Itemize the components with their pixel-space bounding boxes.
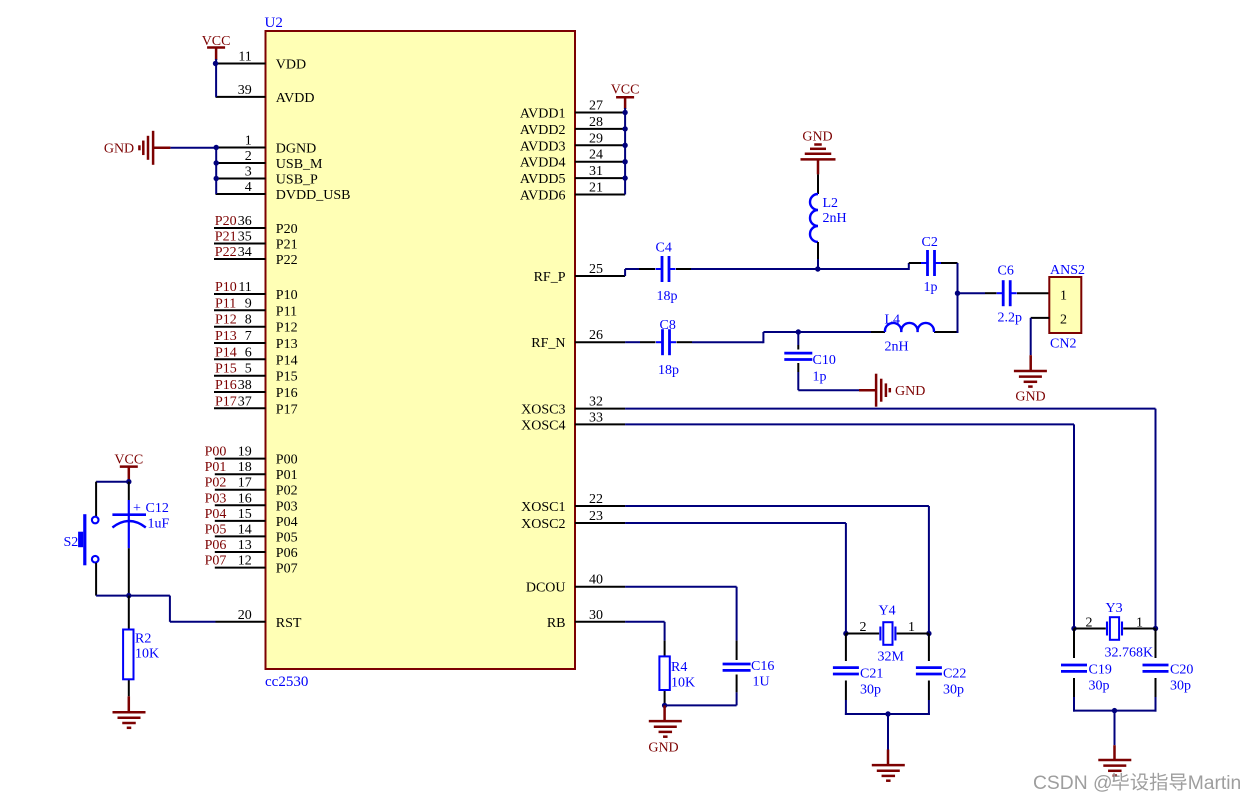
svg-text:CN2: CN2 [1050,337,1076,352]
power GND (below R4) [648,705,681,755]
svg-text:1: 1 [1136,616,1143,631]
capacitor C19 30p [1061,663,1112,694]
junction Y3 pin1/C20 [1153,626,1158,631]
capacitor C2 1p [921,235,941,295]
pin 37 P17 / net label P17 [214,394,298,417]
inductor L2 2nH [810,174,847,259]
svg-text:10K: 10K [671,676,695,691]
pin 14 P05 / net label P05 [205,522,298,545]
pin 27 AVDD1 [520,99,625,122]
junction L2/RF_P [815,266,820,271]
pin 33 XOSC4 [521,410,625,433]
svg-text:R4: R4 [671,660,687,675]
svg-text:P07: P07 [205,554,227,569]
wire VCC to VDD/AVDD [215,59,217,97]
pin 1 DGND [216,134,317,157]
wire RF_P net [625,263,957,294]
svg-text:C22: C22 [943,667,966,682]
svg-text:4: 4 [245,180,252,195]
svg-text:30p: 30p [1170,679,1191,694]
svg-text:L4: L4 [885,313,901,328]
svg-text:GND: GND [648,741,678,756]
junction DGND [214,145,219,150]
pin 31 AVDD5 [520,164,625,187]
wire S2 bottom to node [96,563,129,596]
svg-text:C6: C6 [998,264,1014,279]
pin 11 P10 / net label P10 [214,280,298,303]
junction RF_N/C10 [796,329,801,334]
junction AVDD4 [622,159,627,164]
svg-text:1U: 1U [753,675,770,690]
wire C22 branch [928,634,930,716]
capacitor C4 18p [656,241,678,305]
wire node to C6 to ANS2 pin1 [958,292,1050,294]
pin 7 P13 / net label P13 [214,329,298,352]
pin 15 P04 / net label P04 [205,507,298,530]
svg-text:P14: P14 [276,353,298,368]
junction USB_M [214,160,219,165]
svg-text:P04: P04 [205,507,227,522]
pin 29 AVDD3 [520,131,625,154]
svg-text:P16: P16 [276,386,298,401]
pin 22 XOSC1 [521,492,625,515]
capacitor C10 1p [784,353,836,385]
svg-text:13: 13 [238,538,252,553]
svg-text:AVDD1: AVDD1 [520,107,566,122]
svg-text:XOSC4: XOSC4 [521,418,565,433]
svg-text:P15: P15 [215,362,237,377]
svg-text:1p: 1p [813,370,827,385]
svg-text:AVDD4: AVDD4 [520,156,566,171]
pin 17 P02 / net label P02 [205,476,298,499]
part value cc2530 [265,674,308,690]
svg-text:C19: C19 [1089,663,1112,678]
svg-text:P13: P13 [276,337,298,352]
svg-text:C8: C8 [660,318,676,333]
wire GND to DGND/USB_M/USB_P/DVDD_USB [170,147,216,194]
svg-text:AVDD3: AVDD3 [520,139,566,154]
svg-text:39: 39 [238,83,252,98]
svg-text:20: 20 [238,608,252,623]
svg-text:34: 34 [238,245,252,260]
junction C2/C6/L4 node [955,291,960,296]
pin 38 P16 / net label P16 [214,378,298,401]
svg-text:AVDD2: AVDD2 [520,123,566,138]
capacitor C16 1U [723,659,775,690]
connector ANS2 / CN2 [1049,263,1085,352]
svg-text:30p: 30p [943,683,964,698]
svg-text:GND: GND [1015,390,1045,405]
svg-text:Y3: Y3 [1106,601,1123,616]
pin 20 RST [216,608,302,631]
power GND (below R2) [113,696,146,728]
wire Y4 ground rail [845,714,930,750]
junction VCC/C12/S2 [126,479,131,484]
svg-text:P21: P21 [276,238,298,253]
svg-text:P06: P06 [205,538,227,553]
svg-text:2: 2 [1086,616,1093,631]
svg-text:P00: P00 [276,453,298,468]
svg-text:40: 40 [589,573,603,588]
resistor R4 10K [659,656,695,690]
junction Y4 pin1/C22 [926,631,931,636]
junction Y3 ground rail [1112,708,1117,713]
svg-text:8: 8 [245,313,252,328]
wire C20 branch [1155,629,1157,712]
svg-text:P13: P13 [215,329,237,344]
power GND (below ANS2) [1014,355,1047,404]
svg-text:VDD: VDD [276,58,306,73]
wire XOSC2 to Y4 pin2 [625,523,846,634]
svg-text:19: 19 [238,445,252,460]
svg-text:11: 11 [238,50,251,65]
svg-text:P03: P03 [205,491,227,506]
junction Y4 ground rail [885,711,890,716]
svg-text:18p: 18p [657,289,678,304]
wire XOSC3 to Y3 pin1 [625,409,1155,629]
svg-text:25: 25 [589,262,603,277]
wire node to R2 to GND [128,596,130,697]
power GND (left, sideways) [104,131,171,165]
capacitor C20 30p [1143,663,1194,694]
pin 11 VDD [216,50,307,73]
svg-text:C21: C21 [860,667,883,682]
pin 9 P11 / net label P11 [214,296,297,319]
pin 25 RF_P [534,262,626,285]
svg-text:30p: 30p [860,683,881,698]
svg-text:3: 3 [245,165,252,180]
svg-text:VCC: VCC [114,453,143,468]
svg-text:XOSC1: XOSC1 [521,500,565,515]
svg-text:U2: U2 [265,15,283,31]
svg-text:P20: P20 [276,222,298,237]
svg-text:32M: 32M [878,650,905,665]
junction AVDD1 [622,110,627,115]
wire L2 to RF_P net [817,259,819,270]
watermark CSDN @毕设指导Martin [1033,773,1241,794]
svg-text:P21: P21 [215,230,237,245]
power GND (below Y3) [1098,745,1131,775]
svg-text:P14: P14 [215,345,237,360]
wire VCC junction to S2 top [96,482,129,517]
pin 39 AVDD [216,83,315,106]
wire XOSC4 to Y3 pin2 [625,424,1074,628]
svg-text:P22: P22 [215,245,237,260]
svg-text:GND: GND [802,129,832,144]
junction AVDD5 [622,175,627,180]
pin 4 DVDD_USB [216,180,351,203]
svg-text:P11: P11 [276,304,297,319]
junction Y3 pin2/C19 [1071,626,1076,631]
pin 5 P15 / net label P15 [214,362,298,385]
capacitor C12 1uF polarized [112,501,169,532]
svg-text:2nH: 2nH [823,211,847,226]
svg-text:P11: P11 [215,296,236,311]
svg-text:2nH: 2nH [885,340,909,355]
wire C10 to GND [798,332,859,390]
inductor L4 2nH [885,313,934,355]
power VCC (right of AVDD pins) [611,83,640,110]
wire RF_N net [625,293,957,343]
svg-text:2: 2 [245,149,252,164]
svg-text:P06: P06 [276,546,298,561]
pin 26 RF_N [531,328,625,351]
svg-text:P07: P07 [276,562,298,577]
svg-text:11: 11 [238,280,251,295]
capacitor C6 2.2p [997,264,1022,326]
wire DCOU to C16 to R4 node [625,587,737,706]
svg-text:GND: GND [104,142,134,157]
designator U2 [265,15,283,31]
svg-text:P15: P15 [276,370,298,385]
svg-text:30p: 30p [1089,679,1110,694]
svg-text:18p: 18p [658,363,679,378]
capacitor C8 18p [656,318,679,378]
IC U2 cc2530 body [266,31,576,669]
svg-text:9: 9 [245,296,252,311]
svg-text:+: + [133,501,141,516]
svg-text:14: 14 [238,522,252,537]
svg-text:P12: P12 [215,313,237,328]
pin 19 P00 / net label P00 [205,445,298,468]
pin 35 P21 / net label P21 [214,230,298,253]
svg-text:USB_P: USB_P [276,173,318,188]
svg-text:P03: P03 [276,499,298,514]
wire node to RST [129,596,216,622]
junction R4/C16 [662,703,667,708]
svg-text:DGND: DGND [276,142,316,157]
svg-text:P22: P22 [276,253,298,268]
svg-text:C12: C12 [146,501,169,516]
svg-text:32.768K: 32.768K [1105,646,1154,661]
svg-text:5: 5 [245,362,252,377]
svg-text:1: 1 [245,134,252,149]
svg-text:cc2530: cc2530 [265,674,308,690]
pin 13 P06 / net label P06 [205,538,298,561]
svg-text:Y4: Y4 [879,604,896,619]
svg-text:30: 30 [589,608,603,623]
capacitor C21 30p [833,667,883,698]
svg-text:S2: S2 [64,535,79,550]
svg-text:2.2p: 2.2p [998,311,1023,326]
svg-text:27: 27 [589,99,603,114]
svg-text:P02: P02 [205,476,227,491]
svg-text:P17: P17 [276,402,298,417]
capacitor C22 30p [916,667,966,698]
power GND (below Y4) [872,750,905,781]
junction USB_P [214,176,219,181]
svg-text:AVDD5: AVDD5 [520,172,566,187]
svg-text:24: 24 [589,148,603,163]
svg-text:ANS2: ANS2 [1050,263,1085,278]
junction AVDD2 [622,126,627,131]
svg-text:P05: P05 [276,530,298,545]
svg-text:1p: 1p [924,280,938,295]
svg-text:22: 22 [589,492,603,507]
svg-text:31: 31 [589,164,603,179]
svg-text:AVDD6: AVDD6 [520,189,566,204]
svg-text:DCOU: DCOU [526,581,566,596]
svg-text:DVDD_USB: DVDD_USB [276,188,351,203]
pin 6 P14 / net label P14 [214,345,298,368]
pin 23 XOSC2 [521,509,625,532]
power VCC (top left) [202,34,231,60]
pin 36 P20 / net label P20 [214,214,298,237]
pin 28 AVDD2 [520,115,625,138]
svg-text:RB: RB [547,616,566,631]
pin 24 AVDD4 [520,148,625,171]
svg-text:C4: C4 [656,241,672,256]
svg-text:C16: C16 [751,659,774,674]
svg-text:1: 1 [1060,289,1067,304]
svg-text:P01: P01 [276,468,298,483]
svg-text:6: 6 [245,345,252,360]
pin 30 RB [547,608,625,631]
pin 8 P12 / net label P12 [214,313,298,336]
svg-text:Martin: Martin [1188,773,1242,794]
svg-text:CSDN @: CSDN @ [1033,773,1113,794]
pin 16 P03 / net label P03 [205,491,298,514]
svg-text:12: 12 [238,554,252,569]
svg-text:P12: P12 [276,321,298,336]
pin 34 P22 / net label P22 [214,245,298,268]
svg-text:P16: P16 [215,378,237,393]
wire through C12 [128,482,130,596]
wire C21 branch [845,634,847,716]
resistor R2 10K [123,630,159,680]
power GND (above L2, inverted) [801,129,836,174]
svg-text:28: 28 [589,115,603,130]
svg-text:P00: P00 [205,445,227,460]
svg-text:35: 35 [238,230,252,245]
svg-text:21: 21 [589,181,603,196]
svg-text:XOSC3: XOSC3 [521,403,565,418]
svg-text:AVDD: AVDD [276,91,315,106]
wire ANS2 pin2 to GND [1031,318,1050,355]
wire VCC to AVDD1-AVDD6 [624,108,626,195]
svg-text:32: 32 [589,395,603,410]
svg-text:C20: C20 [1170,663,1193,678]
wire Y3 ground rail [1073,711,1157,746]
pin 2 USB_M [216,149,324,172]
junction at VDD pin 11 [213,61,218,66]
wire XOSC1 to Y4 pin1 [625,506,929,634]
pin 18 P01 / net label P01 [205,460,298,483]
svg-text:C10: C10 [813,353,836,368]
svg-text:GND: GND [895,384,925,399]
svg-text:2: 2 [860,620,867,635]
svg-text:R2: R2 [135,632,151,647]
svg-text:P20: P20 [215,214,237,229]
wire C19 branch [1073,629,1075,712]
svg-text:RST: RST [276,616,302,631]
svg-text:38: 38 [238,378,252,393]
svg-text:RF_N: RF_N [531,336,565,351]
svg-text:XOSC2: XOSC2 [521,517,565,532]
svg-text:2: 2 [1060,313,1067,328]
svg-text:33: 33 [589,410,603,425]
svg-text:36: 36 [238,214,252,229]
svg-text:P10: P10 [215,280,237,295]
svg-text:1uF: 1uF [148,517,170,532]
svg-text:29: 29 [589,131,603,146]
svg-text:RF_P: RF_P [534,270,566,285]
svg-text:23: 23 [589,509,603,524]
svg-text:L2: L2 [823,196,839,211]
junction Y4 pin2/C21 [843,631,848,636]
wire RB to R4 [625,622,665,706]
svg-text:P17: P17 [215,394,237,409]
junction AVDD3 [622,143,627,148]
svg-text:C2: C2 [922,235,938,250]
svg-text:VCC: VCC [611,83,640,98]
pin 40 DCOU [526,573,625,596]
svg-text:10K: 10K [135,647,159,662]
pushbutton S2 [64,514,99,565]
crystal Y3 32.768K [1074,601,1156,661]
svg-text:P01: P01 [205,460,227,475]
svg-text:26: 26 [589,328,603,343]
crystal Y4 32M [846,604,929,665]
svg-text:P10: P10 [276,288,298,303]
junction C12/S2/R2/RST [126,593,131,598]
svg-text:37: 37 [238,394,252,409]
svg-text:17: 17 [238,476,252,491]
svg-text:1: 1 [908,620,915,635]
power VCC (left, S2 area) [114,453,143,483]
pin 32 XOSC3 [521,395,625,418]
svg-text:18: 18 [238,460,252,475]
power GND (right of C10, sideways) [859,374,925,407]
svg-text:P02: P02 [276,484,298,499]
svg-text:7: 7 [245,329,252,344]
svg-text:15: 15 [238,507,252,522]
pin 12 P07 / net label P07 [205,554,298,577]
pin 21 AVDD6 [520,181,625,204]
pin 3 USB_P [216,165,319,188]
svg-text:P04: P04 [276,515,298,530]
svg-text:16: 16 [238,491,252,506]
svg-text:P05: P05 [205,522,227,537]
svg-text:USB_M: USB_M [276,157,323,172]
